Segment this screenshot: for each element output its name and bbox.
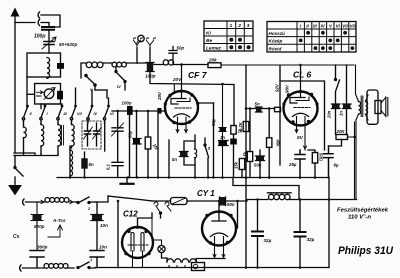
trimmer feed arrows [37,91,44,96]
capacitor 50n cath [256,156,264,161]
CF7 heater box [178,117,187,123]
coil bank L5 [41,125,44,147]
CL6 stage box [280,66,325,165]
tube C12 envelope [122,227,153,258]
bottom wire to coil [23,267,45,269]
svg-text:20V: 20V [172,77,182,82]
switch IV [116,72,125,81]
svg-text:50+520p: 50+520p [59,42,77,47]
electrolytic 32µ a rail [245,178,247,268]
mains line [108,196,152,201]
grid stopper resistor [275,107,281,111]
svg-text:25µ: 25µ [288,162,297,167]
grid series capacitor blob [157,108,161,114]
coil L2 [86,62,103,68]
output transformer secondary [366,102,368,115]
svg-text:VI: VI [110,112,115,116]
resistor 20K [336,135,348,140]
junction dots power [245,266,248,269]
svg-text:CY 1: CY 1 [197,189,215,198]
svg-text:Rövid: Rövid [269,46,282,51]
coil bank L6 with core [58,125,61,147]
trimmer capacitor T2 [94,131,100,134]
wire anode to 20k [174,64,208,66]
capacitor 10n b [90,251,104,268]
svg-text:IV: IV [321,24,326,29]
svg-text:0,1: 0,1 [106,164,111,170]
bottom socket [20,265,21,271]
wire socket to right [41,15,60,27]
svg-text:Hosszú: Hosszú [269,31,286,36]
svg-text:Philips 31U: Philips 31U [338,245,394,257]
CF7 screen grid [177,98,190,102]
band switch II [41,107,45,123]
ground link line [233,178,299,200]
oscillator coil L8 [70,150,73,176]
coil bank L4 [24,127,27,138]
svg-text:III: III [313,24,317,29]
electrolytic 32µ c rail [299,200,301,268]
capacitor 100p grid [127,106,133,115]
ground switch [15,168,23,176]
resistor 0.5k [247,152,252,162]
speaker cone [381,97,388,117]
resistor 0.2K [243,122,249,132]
capacitor 60p [133,139,140,145]
pickup arrow A-Tcs [48,225,63,237]
svg-text:VI: VI [336,24,341,29]
C12 top lead [138,213,153,227]
svg-text:C12: C12 [123,210,138,219]
CF7 screen rim lead [173,84,175,93]
transformer core [361,96,363,117]
capacitor 1n [219,141,228,146]
CF7 grids [175,107,191,109]
wire left rail to ground switch [14,156,16,168]
CF7 pins bottom [178,123,187,132]
resistor 50 [312,153,317,164]
svg-text:50n: 50n [227,202,235,207]
coil small top [163,60,173,65]
wire fuse to cap [187,200,219,202]
AVC rail [129,111,131,178]
band switch IV [72,88,76,123]
svg-text:100p: 100p [34,34,45,40]
dial lamp circle [138,35,144,41]
C12 filament 2 [141,233,144,252]
svg-text:0,5k: 0,5k [243,151,248,160]
resistor 15k [239,159,244,170]
svg-text:20n: 20n [327,110,332,119]
svg-text:60p: 60p [128,130,133,138]
wire left rail [14,23,16,154]
svg-text:1: 1 [230,23,233,29]
capacitor 50p IF [219,84,226,178]
wire trimmer down [48,45,50,53]
padder rail [136,111,138,178]
switch table dots [229,38,233,42]
output transformer primary [359,102,361,115]
switch V [86,76,95,85]
tube CF7 envelope [165,91,198,124]
svg-text:110 V˜-n: 110 V˜-n [348,215,371,221]
band switch III [58,107,62,123]
antenna coil L1 [47,58,50,79]
fuse [171,198,188,205]
wire cap to choke [226,200,269,202]
electrolytic capacitor 32µ b [252,232,263,237]
capacitor 0.1 padder foot [112,162,123,165]
svg-text:VII: VII [77,112,83,116]
bottom switch 1 [67,262,95,268]
speaker [367,90,378,124]
mains switch [154,202,169,206]
CY1 heater box [215,237,224,244]
band table frame [267,22,356,53]
band switch V [88,107,92,123]
screen wire [150,72,234,126]
svg-text:5n: 5n [172,157,177,162]
CY1 anode lead [218,201,220,212]
band table dots row1 [306,31,310,35]
tube CL6 envelope [284,92,318,126]
capacitor 1n top [343,104,351,109]
motor socket box [192,263,205,271]
mains fork 1 [134,38,143,48]
wire into trimmer box [27,93,35,95]
capacitor 50n series [220,197,226,206]
CL6 pins bottom [297,123,306,151]
wire coil row [81,63,137,78]
CF7 anode lead right [198,102,214,104]
antenna coil box [27,53,61,77]
CL6 cathode dome [293,113,309,116]
bottom bus [95,267,329,269]
wire 20K to 6µ [329,140,342,147]
cathode rail [168,140,170,178]
svg-text:1: 1 [90,257,93,262]
CL6 anode [290,65,305,103]
svg-text:1n: 1n [339,111,344,116]
chassis stub [126,178,128,184]
svg-text:5n: 5n [89,162,94,167]
CL6 grids [294,107,310,109]
svg-text:Cs: Cs [13,234,20,240]
svg-text:Közép: Közép [269,39,283,44]
svg-text:CL 6: CL 6 [293,70,312,80]
capacitor 5n osc [82,159,87,168]
switch V VI feeds [92,90,109,105]
capacitor on 1k rail [230,139,237,145]
capacitor 25µ [295,150,305,178]
bus upper left [14,153,58,156]
speaker voice coil [375,101,381,114]
resistor 45k grid leak [267,138,272,148]
smoothing choke core [268,192,292,194]
CF7 cathode dome [174,114,190,117]
svg-text:CF 7: CF 7 [188,70,208,80]
band table grid [267,22,356,53]
dashed trimmer box [82,121,101,149]
svg-text:2: 2 [237,23,241,29]
svg-text:IV: IV [117,84,121,89]
wavetrap coil arrows [38,200,73,204]
svg-text:32µ: 32µ [264,238,272,243]
C12 pins [133,251,143,268]
switch table grid [204,21,253,51]
SECTIONS INSERTED BELOW [11,8,78,154]
capacitor 100p series [147,63,153,72]
CY1 filament pins [215,243,224,257]
trimmer capacitor circle [44,89,54,99]
svg-text:I: I [300,24,302,29]
wire socket to coil [26,201,46,203]
switch top bracket [41,104,62,105]
grid rail down [147,111,149,137]
tone switch [336,65,340,104]
svg-text:V: V [329,24,333,29]
CF7 anode [171,65,186,105]
C12 rim pins [124,252,127,255]
svg-text:500p: 500p [34,224,45,229]
svg-text:III: III [64,112,68,116]
resistor 1M [145,137,151,149]
wire to capacitor [41,23,49,27]
capacitor 300p [30,251,44,268]
ground bus [57,177,329,179]
wire 5n left drop [249,109,251,152]
svg-text:2: 2 [87,206,91,211]
wire antenna to socket [15,22,35,24]
mains fork 2 [147,38,156,48]
svg-text:10n: 10n [100,223,108,228]
capacitor 100p antenna [42,27,54,30]
band switch I [24,107,28,122]
band table dots row3 [314,46,318,50]
smoothing choke [269,194,291,199]
svg-text:I: I [47,112,49,116]
wire switch drops [95,89,107,91]
C12 grid dash [128,244,148,246]
svg-text:1k: 1k [238,129,243,134]
svg-text:50p: 50p [177,46,185,51]
svg-text:VII: VII [342,24,348,29]
trimmer capacitor 50÷520p [44,42,54,45]
capacitor 20n [332,104,340,109]
trimmer box capacitor [57,91,63,100]
CY1 rim pins [205,214,208,217]
svg-text:50p: 50p [211,118,216,126]
socket A2 [38,12,39,18]
tuning rail [157,114,159,178]
svg-text:II: II [30,112,33,116]
switch table frame [204,21,253,51]
wire fork1 down [136,48,138,63]
svg-text:VIII: VIII [350,24,357,29]
B+ line after choke [289,199,356,201]
svg-text:10n: 10n [99,245,107,250]
B+ drop rail [245,65,247,178]
osc rail [213,103,215,178]
capacitor 5n coupling [256,107,262,112]
wavetrap coil 2 bumps [195,149,197,158]
socket A1 [38,20,39,26]
resistor 1k [231,126,236,135]
svg-text:IV: IV [94,112,98,116]
svg-text:II: II [306,24,309,29]
wire box to switch row [26,77,28,108]
wire cap to trimmer [48,30,50,41]
svg-text:6µ: 6µ [334,163,339,168]
antenna [14,12,16,22]
svg-text:15k: 15k [234,161,239,169]
ground rail right [328,178,330,268]
switch 2 [74,197,95,203]
wavetrap coil [45,198,69,203]
left rail to bus [117,201,119,268]
svg-text:5V: 5V [297,135,304,141]
CY1 side lead [236,201,238,228]
electrolytic capacitor 32µ c [295,232,306,237]
junction dots CL6 [299,176,302,179]
svg-text:Be: Be [206,38,212,44]
svg-text:32µ: 32µ [307,237,315,242]
svg-text:92V: 92V [275,83,280,92]
wire switch to fuse [152,201,170,218]
iron core capacitor in box [57,63,64,69]
coil L3 [112,62,126,67]
CL6 heater box [297,117,306,123]
CY1 anode plate [212,212,226,222]
trimmer box [35,84,61,105]
svg-text:5n: 5n [255,102,260,107]
primary tap lead [348,122,355,200]
capacitor 500p [31,202,43,250]
svg-text:20K: 20K [336,129,346,134]
B+ top line [221,64,354,66]
svg-text:98V: 98V [285,84,290,93]
wavetrap socket [23,199,24,205]
svg-text:A-Tcs: A-Tcs [52,218,66,223]
svg-text:3: 3 [247,23,250,29]
bottom coil [44,264,68,269]
lamp wires [152,218,162,245]
junction dots mid [245,176,248,179]
capacitor 10n a [96,202,98,214]
tube CY1 envelope [202,212,236,246]
band table dots row2 [299,39,303,43]
svg-text:100p: 100p [122,101,132,106]
electrolytic 32µ b rail [257,200,259,268]
wavetrap below CF7 bracket [184,141,195,165]
switch 3 [205,146,209,157]
ground [9,186,21,195]
capacitor 50p [169,47,177,65]
ground bus junction dots [69,176,71,178]
svg-text:28V: 28V [157,91,162,101]
capacitor 6µ [324,146,334,178]
CY1 cathode dome [211,233,228,237]
heater tap coil [167,259,196,262]
padder trimmer [112,128,123,131]
svg-text:a: a [168,264,170,268]
switch VI drop [104,120,106,151]
resistor 20k anode load [208,63,221,68]
trimmer capacitor T1 [85,131,91,134]
svg-text:50n: 50n [254,163,262,168]
grid wire to CL6 [246,108,275,110]
CL6 screen grid [296,97,309,101]
transformer leads [356,65,369,200]
CL6 rim pins [287,93,290,96]
coil bank L7 [72,125,75,147]
svg-text:Lemez: Lemez [206,46,222,52]
band switch VI [105,107,109,123]
svg-text:20k: 20k [208,58,217,63]
C12 filament 1 [131,233,134,252]
wire trimmer box down [40,104,42,109]
wavetrap capacitor 5n [180,152,188,157]
svg-text:Feszültségértékek: Feszültségértékek [337,208,389,214]
CF7 grid line [112,110,165,112]
dial lamp [158,245,165,252]
CF7 rim pins [168,94,171,97]
wire fork2 down [149,48,151,62]
svg-text:3: 3 [208,146,211,151]
svg-text:300p: 300p [37,245,48,250]
svg-text:Ki: Ki [206,31,211,37]
wire to power line [95,196,108,202]
junction dot grid feed [245,107,248,110]
